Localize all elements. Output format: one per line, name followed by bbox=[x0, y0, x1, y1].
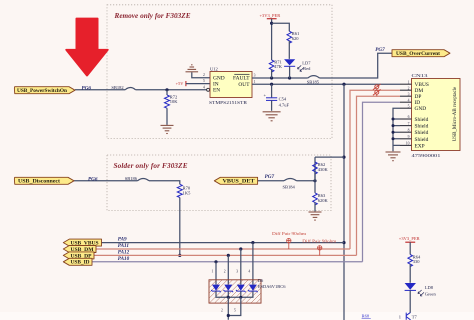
svg-text:VBUS_DET: VBUS_DET bbox=[223, 180, 256, 185]
svg-text:Diff Pair 90ohm: Diff Pair 90ohm bbox=[272, 232, 306, 236]
svg-text:5: 5 bbox=[234, 309, 236, 313]
svg-text:PG7: PG7 bbox=[265, 174, 275, 180]
svg-text:Shield: Shield bbox=[415, 137, 429, 143]
svg-text:T7: T7 bbox=[412, 314, 418, 319]
svg-text:SB182: SB182 bbox=[111, 85, 123, 90]
svg-text:4: 4 bbox=[248, 270, 250, 274]
svg-text:7: 7 bbox=[408, 122, 410, 126]
svg-text:IN: IN bbox=[213, 82, 219, 88]
svg-text:PG6: PG6 bbox=[82, 86, 92, 92]
svg-text:620: 620 bbox=[292, 36, 300, 41]
svg-text:PG6: PG6 bbox=[88, 176, 98, 182]
svg-text:PA11: PA11 bbox=[118, 243, 130, 249]
svg-text:C54: C54 bbox=[279, 97, 287, 102]
svg-text:4: 4 bbox=[203, 85, 205, 89]
svg-text:3: 3 bbox=[236, 270, 238, 274]
svg-text:6: 6 bbox=[408, 115, 410, 119]
svg-text:Red: Red bbox=[303, 66, 311, 71]
svg-text:5: 5 bbox=[203, 79, 205, 83]
svg-text:Remove only for F303ZE: Remove only for F303ZE bbox=[114, 12, 191, 20]
svg-text:10K: 10K bbox=[170, 99, 179, 104]
svg-text:Diff Pair 90ohm: Diff Pair 90ohm bbox=[302, 239, 336, 243]
svg-text:PG7: PG7 bbox=[375, 47, 385, 53]
svg-text:STMPS2151STR: STMPS2151STR bbox=[209, 100, 247, 105]
svg-text:ESDA6V1BC6: ESDA6V1BC6 bbox=[258, 284, 287, 289]
svg-text:430K: 430K bbox=[318, 167, 329, 172]
svg-text:Shield: Shield bbox=[415, 117, 429, 123]
svg-text:4: 4 bbox=[408, 98, 410, 102]
svg-text:1: 1 bbox=[212, 270, 214, 274]
svg-text:10: 10 bbox=[406, 142, 410, 146]
svg-text:OUT: OUT bbox=[238, 82, 250, 88]
svg-text:PA9: PA9 bbox=[118, 237, 127, 243]
svg-text:USB_PowerSwitchOn: USB_PowerSwitchOn bbox=[17, 89, 67, 94]
svg-text:GND: GND bbox=[415, 106, 427, 112]
svg-text:Shield: Shield bbox=[415, 124, 429, 130]
svg-text:FAULT: FAULT bbox=[233, 75, 250, 81]
svg-text:USB_OverCurrent: USB_OverCurrent bbox=[396, 52, 441, 57]
svg-text:+5V: +5V bbox=[176, 81, 185, 86]
svg-text:47K: 47K bbox=[274, 64, 283, 69]
svg-text:2: 2 bbox=[221, 309, 223, 313]
svg-text:1: 1 bbox=[399, 314, 401, 319]
svg-text:USB_Disconnect: USB_Disconnect bbox=[18, 180, 61, 185]
svg-text:SB186: SB186 bbox=[125, 176, 138, 181]
svg-text:330: 330 bbox=[413, 259, 421, 264]
svg-text:D6: D6 bbox=[258, 278, 264, 283]
svg-text:Green: Green bbox=[425, 291, 437, 296]
svg-text:R68: R68 bbox=[362, 313, 370, 318]
svg-text:5: 5 bbox=[408, 104, 410, 108]
svg-text:Solder only for F303ZE: Solder only for F303ZE bbox=[114, 162, 188, 170]
svg-text:USB_Micro-AB receptacle: USB_Micro-AB receptacle bbox=[453, 86, 458, 141]
svg-text:LD7: LD7 bbox=[302, 61, 311, 66]
svg-text:USB_ID: USB_ID bbox=[71, 261, 91, 266]
svg-text:2: 2 bbox=[203, 73, 205, 77]
svg-text:PA12: PA12 bbox=[118, 249, 130, 255]
svg-text:1: 1 bbox=[254, 80, 256, 84]
svg-text:8: 8 bbox=[408, 128, 410, 132]
svg-text:4.7uF: 4.7uF bbox=[279, 102, 290, 107]
svg-text:475900001: 475900001 bbox=[412, 153, 441, 158]
svg-text:3: 3 bbox=[408, 92, 410, 96]
svg-text:PA10: PA10 bbox=[118, 256, 130, 262]
svg-text:CN13: CN13 bbox=[412, 73, 429, 78]
svg-text:3: 3 bbox=[254, 73, 256, 77]
svg-text:+3V3_PER: +3V3_PER bbox=[260, 13, 281, 18]
svg-text:EXP: EXP bbox=[415, 143, 425, 149]
svg-text:1K5: 1K5 bbox=[183, 190, 191, 195]
svg-text:Shield: Shield bbox=[415, 130, 429, 136]
svg-text:1: 1 bbox=[408, 80, 410, 84]
svg-text:+3V3_PER: +3V3_PER bbox=[399, 236, 420, 241]
svg-text:9: 9 bbox=[408, 135, 410, 139]
svg-text:LD8: LD8 bbox=[425, 285, 434, 290]
svg-text:EN: EN bbox=[213, 88, 220, 94]
svg-text:2: 2 bbox=[408, 86, 410, 90]
svg-text:2: 2 bbox=[224, 270, 226, 274]
svg-text:620K: 620K bbox=[318, 198, 329, 203]
svg-text:U12: U12 bbox=[210, 66, 218, 71]
svg-text:SB184: SB184 bbox=[283, 185, 296, 190]
